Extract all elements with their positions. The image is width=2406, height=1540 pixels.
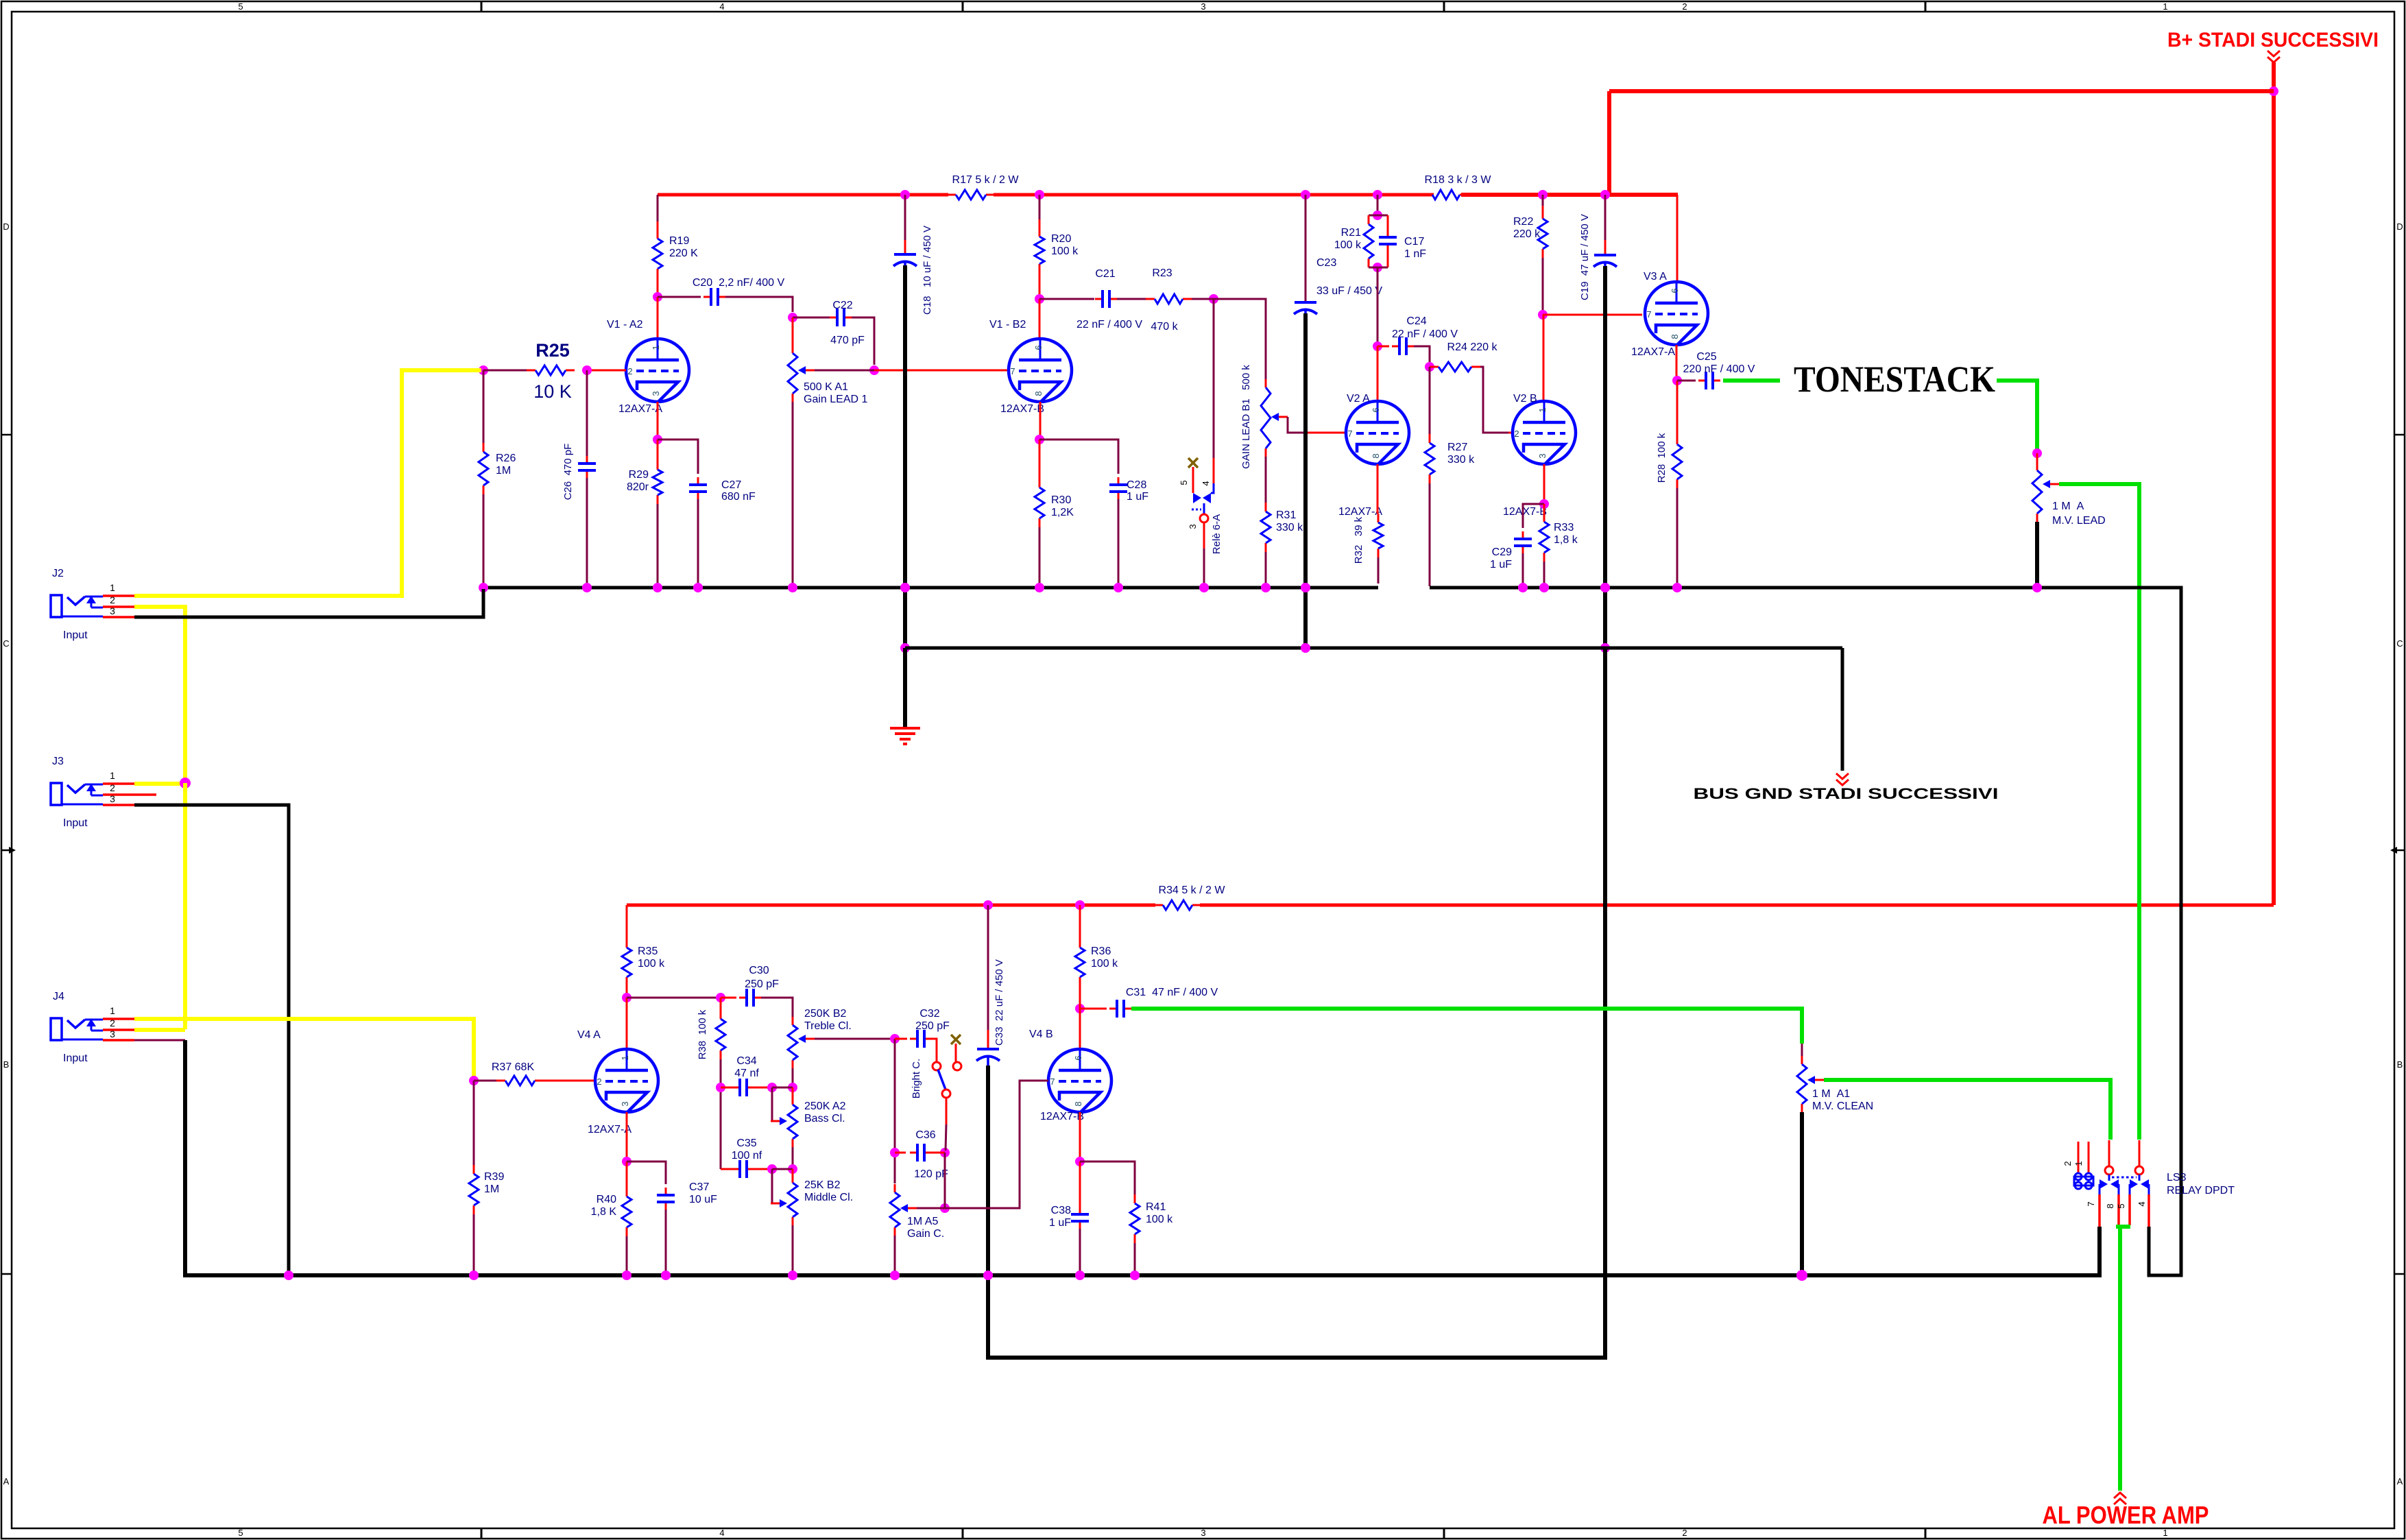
svg-text:1: 1: [2163, 1, 2167, 12]
potentiometer Middle Cl 25K B2: [792, 1175, 794, 1183]
wire J4 pin3 black riser: [185, 1040, 2100, 1275]
junction rail R36 node: [1075, 900, 1085, 910]
junction middle top node: [788, 1164, 797, 1174]
wire MV CLEAN bottom black to gnd bus: [1800, 1112, 1804, 1275]
svg-text:R40: R40: [597, 1194, 616, 1205]
jack J2: [51, 595, 62, 617]
border zone ticks right: [2394, 434, 2405, 436]
svg-text:C24: C24: [1406, 315, 1426, 327]
junction C19 gnd bus2: [1600, 643, 1610, 653]
wire C19 black down to link corner: [1603, 266, 1607, 1358]
capacitor C30: [739, 997, 747, 999]
svg-text:250 pF: 250 pF: [745, 978, 779, 990]
svg-text:M.V. LEAD: M.V. LEAD: [2052, 515, 2106, 527]
wire MV LEAD node stub: [2036, 453, 2038, 463]
wire cathode node to C37: [627, 1162, 666, 1184]
svg-text:R17 5 k / 2 W: R17 5 k / 2 W: [952, 174, 1020, 186]
svg-text:V1 - B2: V1 - B2: [989, 319, 1026, 330]
svg-text:8: 8: [1371, 453, 1381, 458]
wire C26 to gnd bus: [586, 478, 588, 583]
wire relay 6-A pin3 to gnd bus: [1203, 549, 1205, 583]
wire J3 pin1 yellow: [134, 782, 185, 786]
capacitor C23 polarized: [1295, 301, 1316, 304]
svg-text:AL POWER AMP: AL POWER AMP: [2043, 1501, 2209, 1529]
wire tonestack to MV LEAD pot green: [1997, 381, 2037, 449]
resistor R38: [720, 1010, 722, 1019]
svg-text:250K A2: 250K A2: [804, 1100, 846, 1112]
relay 6-A common lead: [1203, 503, 1205, 514]
wire R37 to V4A grid: [544, 1080, 594, 1082]
svg-text:Treble Cl.: Treble Cl.: [804, 1020, 852, 1032]
wire C20 to corner: [725, 297, 793, 312]
wire V1-A2 cathode: [657, 402, 659, 435]
R21/C17 bottom bar: [1369, 267, 1388, 269]
svg-text:Relè 6-A: Relè 6-A: [1211, 514, 1223, 554]
wire R29 to gnd bus: [657, 504, 659, 583]
svg-text:100 k: 100 k: [638, 958, 665, 970]
wire node to V3A grid: [1543, 314, 1642, 316]
capacitor C32: [910, 1038, 917, 1040]
wire relay pin3 stub: [2139, 1140, 2141, 1166]
wire R20 top stub: [1039, 219, 1041, 228]
potentiometer GAIN LEAD B1 500k: [1265, 379, 1267, 387]
capacitor C21: [1095, 298, 1103, 300]
potentiometer Treble Cl 250K B2: [792, 1017, 794, 1025]
svg-text:A: A: [2397, 1476, 2403, 1487]
svg-text:6: 6: [1670, 288, 1680, 293]
svg-text:2: 2: [110, 1018, 115, 1028]
svg-text:12AX7-B: 12AX7-B: [1000, 403, 1044, 415]
wire plate node to C21: [1039, 298, 1094, 300]
wire B+ vertical right: [2272, 62, 2276, 905]
wire cathode node to R33: [1543, 504, 1545, 514]
wire pot wiper to node: [815, 370, 874, 372]
junction V2B cathode node: [1539, 499, 1549, 509]
junction rail C18 node: [900, 190, 910, 200]
resistor R21: [1368, 215, 1370, 224]
potentiometer M.V. CLEAN 1M A1: [1801, 1056, 1803, 1064]
wire plate node to R38/C30 node: [627, 997, 719, 999]
wire relay 6-A pin5 stub: [1192, 467, 1194, 493]
svg-text:5: 5: [238, 1528, 243, 1538]
wire rail to C33: [987, 905, 989, 1030]
svg-text:8: 8: [1073, 1101, 1083, 1106]
relay LS3 contact B circle pin3: [2135, 1166, 2143, 1175]
wire node down to relay 6-A pin4: [1213, 299, 1215, 458]
tube V2B: [1513, 401, 1576, 464]
svg-text:B: B: [3, 1059, 10, 1070]
svg-text:4: 4: [719, 1528, 724, 1538]
wire rail to C23: [1305, 195, 1307, 302]
junction R21/C17 top: [1373, 210, 1382, 220]
svg-text:R41: R41: [1146, 1201, 1166, 1213]
junction gnd bus2 corner: [900, 643, 910, 653]
svg-text:1 nF: 1 nF: [1404, 248, 1426, 260]
svg-text:1M A5: 1M A5: [907, 1216, 938, 1227]
wire J3 pin3 black: [134, 805, 289, 1275]
capacitor C33 polarized: [977, 1048, 999, 1050]
capacitor C34: [732, 1087, 740, 1089]
wire R38 to C34/C35 left column: [720, 1059, 722, 1169]
resistor R25: [527, 370, 536, 372]
svg-text:10 K: 10 K: [533, 381, 572, 402]
wire C29 to gnd bus: [1522, 553, 1524, 583]
svg-text:C26 470 pF: C26 470 pF: [562, 444, 574, 501]
junction rail R20 node: [1035, 190, 1044, 200]
resistor R33: [1543, 513, 1545, 522]
junction R23 output node: [1209, 294, 1218, 304]
wire R25 left node to resistor: [483, 370, 527, 372]
wire middle top node stub: [792, 1169, 794, 1175]
wire bright nc stub: [955, 1044, 957, 1062]
svg-text:V2 B: V2 B: [1513, 393, 1537, 405]
svg-text:R27: R27: [1447, 442, 1467, 453]
potentiometer M.V. LEAD 1M A: [2036, 462, 2038, 470]
svg-text:D: D: [3, 221, 9, 232]
wire middle wiper feed: [772, 1169, 780, 1203]
junction gnd bus2 dot C23: [1301, 643, 1310, 653]
svg-text:2: 2: [110, 594, 115, 605]
wire cathode node to R30: [1039, 440, 1041, 479]
resistor R23: [1146, 298, 1155, 300]
capacitor C28: [1118, 477, 1120, 485]
wire C33 black to gnd bus: [986, 1066, 990, 1278]
svg-text:C: C: [2396, 638, 2403, 649]
junction V2B plate node: [1538, 310, 1548, 320]
relay 6-A contact triangles: [1193, 493, 1201, 503]
svg-text:220 nF / 400 V: 220 nF / 400 V: [1683, 363, 1755, 375]
junction bass top node: [788, 1083, 797, 1092]
svg-text:R33: R33: [1554, 522, 1574, 533]
junction treble wiper node: [890, 1034, 900, 1044]
arrow chevrons AL POWER AMP: [2114, 1493, 2126, 1498]
wire C25 to tonestack green: [1723, 378, 1780, 383]
ground symbol: [890, 727, 920, 730]
wire C17 top lead: [1387, 215, 1389, 231]
svg-text:1M: 1M: [484, 1183, 499, 1195]
capacitor C17: [1387, 230, 1389, 237]
svg-text:Bass Cl.: Bass Cl.: [804, 1113, 845, 1124]
wire bass top node stub: [792, 1087, 794, 1097]
wire plate node to V1-A2 plate: [657, 297, 659, 339]
wire clean channel B+ rail left: [627, 904, 1155, 907]
switch Bright C nc circle: [953, 1062, 961, 1070]
switch Bright C blade: [938, 1070, 946, 1090]
arrow chevrons BUS GND: [1836, 773, 1849, 779]
relay LS3 contact B: [2139, 1175, 2141, 1181]
wire V2A cathode to R32: [1377, 464, 1379, 514]
wire C27 to gnd bus: [697, 499, 699, 583]
svg-text:C17: C17: [1404, 236, 1424, 248]
junction rail R22 node: [1538, 190, 1548, 200]
svg-text:1 M A1: 1 M A1: [1812, 1088, 1850, 1100]
tube V3A: [1645, 282, 1708, 345]
wire R41 to gnd bus: [1134, 1243, 1136, 1275]
svg-text:6: 6: [1073, 1055, 1083, 1060]
svg-text:5: 5: [238, 1, 243, 12]
wire wiper corner to V2A grid red: [1304, 432, 1345, 434]
wire lead channel B+ rail right portion: [1461, 193, 1678, 197]
wire C18 top stub: [904, 240, 906, 254]
svg-text:500 K A1: 500 K A1: [804, 381, 848, 393]
capacitor C37: [665, 1188, 667, 1195]
wire gain wiper to node: [917, 1207, 945, 1210]
svg-text:B: B: [2397, 1059, 2403, 1070]
resistor R41: [1134, 1194, 1136, 1203]
svg-text:C32: C32: [919, 1008, 939, 1020]
wire MV LEAD bottom black to gnd bus: [2035, 522, 2039, 588]
svg-text:Input: Input: [63, 817, 88, 829]
svg-text:C31 47 nF / 400 V: C31 47 nF / 400 V: [1126, 987, 1218, 998]
wire relay pin6 stub: [2108, 1140, 2110, 1166]
wire rail corner to R35: [626, 905, 628, 939]
wire R22 top stub: [1542, 206, 1544, 210]
wire bright pole down to C36 node: [946, 1098, 948, 1124]
wire R31 to gnd bus: [1265, 552, 1267, 583]
wire gain pot bottom to gnd bus: [894, 1236, 896, 1274]
wire C35 right node: [754, 1168, 770, 1170]
wire bass bottom to middle top: [792, 1147, 794, 1167]
wire plate node to C20: [658, 296, 701, 298]
wire treble node to C32: [895, 1038, 907, 1040]
relay LS3 mechanical link dotted: [2112, 1177, 2137, 1179]
capacitor C25: [1698, 380, 1706, 382]
svg-text:7: 7: [2086, 1201, 2096, 1206]
svg-text:R21: R21: [1341, 227, 1361, 239]
relay LS3 coil pin2 stub: [2078, 1142, 2080, 1174]
wire grid red into V2B: [1508, 432, 1511, 434]
svg-text:2: 2: [2062, 1161, 2073, 1166]
svg-text:100 nf: 100 nf: [732, 1150, 762, 1162]
wire node to R39: [473, 1081, 475, 1165]
tube V1-B2: [1009, 339, 1072, 402]
svg-text:47 nf: 47 nf: [734, 1068, 759, 1079]
wire R32 to gnd bus: [1378, 557, 1380, 583]
svg-text:330 k: 330 k: [1447, 454, 1475, 466]
junction C34 right node: [767, 1083, 777, 1092]
svg-text:R38 100 k: R38 100 k: [697, 1009, 708, 1059]
svg-text:1,8 k: 1,8 k: [1554, 534, 1578, 546]
wire bright pole maroon: [946, 1124, 946, 1151]
junction R24 node: [1425, 362, 1434, 372]
wire treble wiper to gain node: [815, 1038, 895, 1040]
wire rail corner to R19: [657, 195, 659, 221]
junction C23 gnd bus1: [1301, 583, 1310, 592]
junction V4A plate node: [622, 993, 631, 1002]
junction C22 left node: [788, 313, 797, 322]
svg-text:1 uF: 1 uF: [1049, 1217, 1071, 1229]
wire gnd stub to ground symbol: [903, 648, 907, 727]
svg-text:C20 2,2 nF/ 400 V: C20 2,2 nF/ 400 V: [693, 277, 785, 289]
svg-text:R24 220 k: R24 220 k: [1447, 341, 1498, 353]
svg-text:100 k: 100 k: [1146, 1214, 1173, 1225]
wire B+ drop to lead rail: [1607, 91, 1611, 195]
junction MV CLEAN gnd bus: [1796, 1270, 1807, 1281]
svg-text:5: 5: [2116, 1203, 2126, 1208]
wire R39 to gnd bus: [473, 1214, 475, 1275]
junction C24 node: [1373, 341, 1382, 351]
no-connect X relay 6-A pin5: [1188, 458, 1198, 468]
svg-text:C38: C38: [1051, 1205, 1071, 1216]
wire C34 right to bass node: [754, 1087, 770, 1089]
capacitor C29: [1522, 531, 1524, 539]
wire rail to C19: [1604, 195, 1607, 240]
wire C23 to gnd bus black: [1303, 313, 1308, 648]
svg-text:R25: R25: [536, 340, 570, 361]
svg-text:7: 7: [1347, 429, 1352, 439]
wire J2 pin1 yellow: [134, 370, 481, 596]
wire bus2 to BUS GND arrow: [1841, 648, 1844, 771]
capacitor C31: [1109, 1008, 1117, 1010]
wire middle bottom to gnd bus: [792, 1225, 794, 1274]
svg-text:C34: C34: [736, 1055, 756, 1067]
wire J3 pin2 stub: [134, 793, 156, 796]
junction V3A cathode node: [1672, 376, 1682, 385]
wire V4B cathode: [1079, 1112, 1081, 1159]
svg-text:R35: R35: [638, 946, 658, 957]
svg-text:3: 3: [620, 1101, 630, 1106]
tube V4A: [595, 1049, 658, 1112]
svg-text:1 uF: 1 uF: [1490, 559, 1512, 570]
wire rail to R22: [1542, 195, 1544, 206]
svg-text:GAIN LEAD B1 500 k: GAIN LEAD B1 500 k: [1240, 365, 1252, 469]
resistor R19: [657, 230, 659, 239]
wire C28 to gnd bus: [1118, 499, 1120, 583]
capacitor C24: [1392, 346, 1399, 348]
wire cathode node to R41: [1080, 1162, 1135, 1194]
svg-text:3: 3: [651, 391, 661, 396]
svg-text:BUS GND STADI SUCCESSIVI: BUS GND STADI SUCCESSIVI: [1694, 785, 1999, 802]
svg-text:R36: R36: [1091, 946, 1111, 957]
wire C32 to bright switch: [932, 1039, 937, 1062]
svg-text:C30: C30: [749, 965, 769, 976]
wire node to R26: [483, 370, 485, 443]
wire rail to R20: [1039, 195, 1041, 219]
wire bass wiper feed: [772, 1087, 780, 1121]
junction C36 left node: [890, 1148, 900, 1157]
svg-text:5: 5: [1179, 480, 1189, 485]
svg-text:7: 7: [1010, 366, 1015, 376]
svg-text:C36: C36: [915, 1129, 935, 1141]
wire node to V2B plate: [1543, 315, 1545, 401]
wire R24 to V2B grid: [1480, 367, 1508, 433]
wire plate node to V4A plate: [626, 998, 628, 1049]
svg-text:680 nF: 680 nF: [721, 491, 756, 503]
wire node to C24: [1378, 346, 1389, 348]
svg-text:4: 4: [2137, 1201, 2147, 1206]
svg-text:V3 A: V3 A: [1644, 271, 1667, 282]
svg-text:12AX7-A: 12AX7-A: [618, 403, 662, 415]
wire plate node to V4B plate: [1079, 1009, 1081, 1049]
junction cathode node V1-B2: [1035, 435, 1044, 444]
svg-text:470 pF: 470 pF: [830, 335, 865, 346]
capacitor C27: [697, 477, 699, 485]
svg-text:V2 A: V2 A: [1347, 393, 1370, 405]
junction B+ node: [2269, 86, 2278, 96]
wire node to C38: [1079, 1162, 1081, 1207]
svg-text:R32 39 k: R32 39 k: [1353, 516, 1364, 564]
wire lead channel B+ rail left portion: [658, 193, 948, 197]
wire green to AL POWER AMP: [2118, 1227, 2122, 1491]
svg-text:10 uF: 10 uF: [689, 1194, 717, 1205]
wire V1-B2 cathode: [1039, 402, 1042, 435]
svg-text:12AX7-B: 12AX7-B: [1040, 1111, 1084, 1122]
border centering arrow left: [1, 850, 9, 852]
junction plate node V1-A2: [653, 292, 662, 302]
svg-text:7: 7: [1646, 309, 1651, 320]
svg-text:330 k: 330 k: [1276, 522, 1303, 533]
svg-text:6: 6: [1033, 345, 1044, 350]
wire node to C29: [1523, 504, 1544, 528]
svg-text:R19: R19: [669, 235, 689, 247]
relay LS3 coil pin1 stub: [2088, 1142, 2090, 1174]
svg-text:R26: R26: [496, 453, 516, 464]
resistor R34: [1154, 904, 1163, 906]
svg-text:C18 10 uF / 450 V: C18 10 uF / 450 V: [922, 226, 933, 315]
junction rail C19 node: [1600, 190, 1610, 200]
svg-text:8: 8: [1670, 334, 1680, 339]
svg-text:2: 2: [1682, 1, 1687, 12]
junction V4B cathode node: [1075, 1157, 1085, 1166]
arrow chevrons B+ entry: [2267, 51, 2280, 56]
wire relay pin8 stub: [2117, 1194, 2120, 1225]
wire C22 to wiper node: [852, 317, 874, 365]
wire cathode node to R40: [626, 1162, 628, 1188]
wire R25 node to V1-A2 grid: [587, 370, 626, 372]
svg-text:33 uF / 450 V: 33 uF / 450 V: [1316, 285, 1382, 297]
wire C36 left: [895, 1152, 906, 1154]
svg-text:2: 2: [627, 366, 632, 376]
resistor R20: [1039, 228, 1041, 237]
resistor R27: [1429, 434, 1431, 443]
wire C24 to R24 node: [1414, 346, 1430, 362]
svg-text:V4 A: V4 A: [577, 1029, 601, 1041]
wire R22 to plate node: [1542, 258, 1544, 312]
wire node to C22: [793, 317, 830, 319]
svg-text:3: 3: [110, 793, 115, 804]
wire node to R38: [720, 998, 722, 1011]
svg-text:C33 22 uF / 450 V: C33 22 uF / 450 V: [994, 959, 1005, 1046]
wire green corner to MV CLEAN pot: [1801, 1044, 1803, 1056]
svg-text:Input: Input: [63, 1052, 88, 1064]
svg-text:2: 2: [1682, 1528, 1687, 1538]
svg-text:R37 68K: R37 68K: [492, 1061, 535, 1073]
switch Bright C pole circle: [942, 1090, 950, 1098]
svg-text:250K B2: 250K B2: [804, 1008, 846, 1020]
resistor R17: [947, 194, 956, 196]
wire C30 to treble pot: [761, 998, 793, 1017]
wire treble bottom to bass top: [792, 1068, 794, 1085]
svg-text:1: 1: [1537, 407, 1548, 412]
junction R38 bottom node: [716, 1083, 725, 1092]
resistor R28: [1676, 435, 1679, 444]
tube V2A: [1346, 401, 1409, 464]
relay 6-A mechanical link dotted: [1192, 509, 1201, 511]
wire relay 6-A pin3 stub: [1203, 522, 1205, 549]
relay LS3 contact A circle pin6: [2105, 1166, 2113, 1175]
relay LS3 contact A: [2108, 1175, 2110, 1181]
resistor R29: [657, 461, 659, 470]
switch Bright C throw circle: [933, 1062, 941, 1070]
resistor R35: [626, 939, 628, 948]
wire J2 pin2 yellow: [134, 607, 185, 783]
junction MV LEAD pot top: [2032, 448, 2042, 458]
capacitor C20: [703, 296, 711, 298]
svg-text:1: 1: [620, 1055, 630, 1060]
wire R40 to gnd bus: [626, 1236, 628, 1275]
junction wiper node Gain LEAD 1: [869, 365, 879, 375]
capacitor C19 polarized: [1594, 254, 1616, 256]
